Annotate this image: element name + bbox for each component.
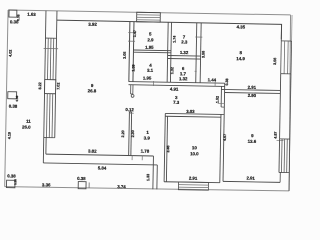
wall divider rooms 5-7 and 4-6 [167,22,168,82]
tick entrance [218,103,225,105]
svg-text:4.57: 4.57 [223,134,227,141]
svg-text:1.32: 1.32 [170,67,174,74]
svg-text:4.91: 4.91 [170,87,179,92]
svg-text:7.02: 7.02 [56,83,60,90]
inner top wall line [56,20,281,39]
outer boundary left line [5,10,8,187]
svg-text:10: 10 [192,145,198,150]
svg-text:3.9: 3.9 [144,135,151,140]
svg-text:0.38: 0.38 [7,173,16,178]
svg-text:1.47: 1.47 [133,30,137,37]
svg-text:4.19: 4.19 [8,132,12,139]
svg-text:1.52: 1.52 [215,96,219,103]
svg-text:4.02: 4.02 [9,50,13,57]
right wall pier [280,74,281,139]
svg-text:13.6: 13.6 [248,139,257,144]
svg-text:26.8: 26.8 [88,88,97,93]
svg-text:1.44: 1.44 [208,77,217,82]
wall between room 8 and room 9 (13.6) [221,89,280,90]
window in top wall above room 5 [137,12,161,22]
svg-text:1.95: 1.95 [145,45,154,50]
right wall bottom pier [288,173,290,191]
svg-text:3.74: 3.74 [117,184,126,189]
window hatch upper left wall [47,38,50,79]
pier block in left wall [45,80,56,94]
corridor room 3 top wall [129,82,225,84]
column top-left 0.38 [9,10,17,17]
room 10 left wall [164,113,165,181]
window lower right wall [280,138,290,140]
svg-text:26.0: 26.0 [22,124,31,129]
outer boundary bottom line [5,186,289,192]
svg-text:0.38: 0.38 [225,79,229,86]
svg-text:1.63: 1.63 [27,12,36,17]
right wall inner line upper [280,24,282,40]
tick crossing left wall window [44,48,58,50]
svg-text:0.38: 0.38 [9,104,18,109]
svg-text:2.91: 2.91 [248,85,257,90]
window hatch lower left wall [46,94,49,138]
ticks on wall 7-8 [195,36,202,38]
svg-text:3.1: 3.1 [147,68,154,73]
outer boundary right line [287,15,292,191]
outer lower wall line [43,163,157,165]
wall between rooms 7-6 and room 8 [196,23,197,83]
svg-text:3.05: 3.05 [123,52,127,59]
corridor right wall upper segment [220,86,222,107]
svg-text:3.56: 3.56 [273,58,277,65]
left wall of room 9 with windows [44,11,46,138]
svg-text:3.58: 3.58 [201,51,205,58]
ticks on band wall [128,32,135,34]
svg-text:3.82: 3.82 [88,149,97,154]
svg-text:14.9: 14.9 [236,56,245,61]
svg-text:0.38: 0.38 [15,95,19,101]
wall between rooms 5 and 4 [134,49,171,52]
svg-text:1.78: 1.78 [141,149,150,154]
room 10 bottom wall [164,181,220,184]
tick and label 0.12 [129,112,134,114]
svg-text:5.84: 5.84 [98,165,107,170]
svg-text:10.0: 10.0 [190,151,199,156]
svg-text:0.38: 0.38 [10,19,19,24]
svg-text:1.33: 1.33 [146,174,150,181]
svg-text:11: 11 [26,119,31,124]
window under room 10 [178,182,208,190]
tick 4.87 [277,139,284,141]
door ticks under room 9 bottom wall [131,156,133,160]
svg-text:1.95: 1.95 [143,75,152,80]
room 9 bottom wall inner line [46,154,154,156]
svg-text:2.90: 2.90 [248,93,257,98]
svg-text:1.32: 1.32 [180,50,189,55]
svg-text:1.59: 1.59 [132,64,136,71]
column mid-left 0.38 [8,92,17,99]
room 10 top wall [165,112,221,115]
wall stub below corner [130,85,132,94]
svg-text:7.3: 7.3 [173,100,180,105]
lower narrow wall below window wall [42,138,44,163]
svg-text:8.22: 8.22 [38,82,42,89]
wall 1.33 left line [152,156,155,189]
wall 1.33 right line [156,165,158,189]
window upper right wall [281,40,291,42]
wall between corridor-room10 and room 9 (13.6) [220,114,221,182]
svg-text:1.32: 1.32 [179,76,188,81]
svg-text:1.74: 1.74 [173,35,177,43]
svg-text:0.38: 0.38 [13,179,17,185]
wall room 9 right upper band [129,21,130,81]
svg-text:0.12: 0.12 [125,107,134,112]
room 9 (13.6) bottom wall [223,180,280,183]
svg-text:2.91: 2.91 [189,176,198,181]
svg-text:4.87: 4.87 [274,131,278,138]
svg-text:2.20: 2.20 [121,130,125,137]
wall room 9 right lower band [128,112,131,156]
svg-text:2.91: 2.91 [246,175,255,180]
svg-text:4.35: 4.35 [236,24,245,29]
svg-text:3.92: 3.92 [88,22,97,27]
svg-text:3.03: 3.03 [186,109,195,114]
svg-text:0.38: 0.38 [77,176,86,181]
svg-text:3.36: 3.36 [42,182,51,187]
svg-text:3.46: 3.46 [166,145,170,152]
svg-text:2.9: 2.9 [147,37,154,42]
ticks corridor wall [153,81,155,86]
outer boundary top line [8,10,290,15]
svg-text:2.3: 2.3 [181,39,188,44]
wall between rooms 7 and 6 [168,54,201,57]
